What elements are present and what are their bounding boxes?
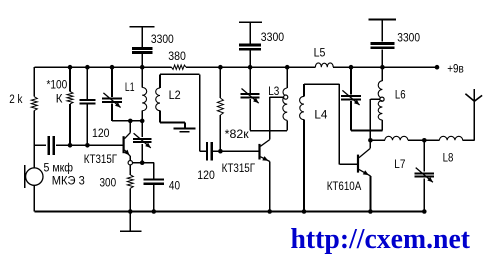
svg-text:К: К (56, 94, 63, 106)
svg-text:300: 300 (100, 178, 117, 190)
svg-text:380: 380 (168, 51, 186, 63)
svg-text:*100: *100 (47, 80, 68, 92)
svg-text:L2: L2 (169, 90, 181, 102)
svg-text:L7: L7 (394, 159, 405, 171)
svg-text:КТ315Г: КТ315Г (222, 163, 256, 175)
svg-text:+9в: +9в (447, 63, 464, 75)
svg-text:40: 40 (169, 181, 180, 193)
svg-text:3300: 3300 (397, 32, 420, 44)
svg-text:5 мкф: 5 мкф (44, 162, 74, 174)
svg-text:МКЭ 3: МКЭ 3 (52, 175, 85, 187)
svg-text:120: 120 (197, 170, 215, 182)
svg-text:L6: L6 (395, 90, 406, 102)
svg-text:3300: 3300 (151, 34, 174, 46)
svg-text:*82к: *82к (225, 129, 250, 141)
svg-text:КТ315Г: КТ315Г (84, 154, 118, 166)
svg-text:2 k: 2 k (9, 94, 22, 106)
svg-text:L5: L5 (314, 48, 326, 60)
svg-text:http://cxem.net: http://cxem.net (291, 224, 471, 255)
svg-text:120: 120 (92, 128, 110, 140)
svg-text:КТ610А: КТ610А (327, 181, 362, 193)
svg-text:L4: L4 (314, 110, 328, 122)
svg-text:L1: L1 (125, 82, 135, 94)
svg-text:L3: L3 (268, 86, 279, 98)
svg-text:3300: 3300 (261, 32, 284, 44)
svg-text:L8: L8 (443, 152, 454, 164)
